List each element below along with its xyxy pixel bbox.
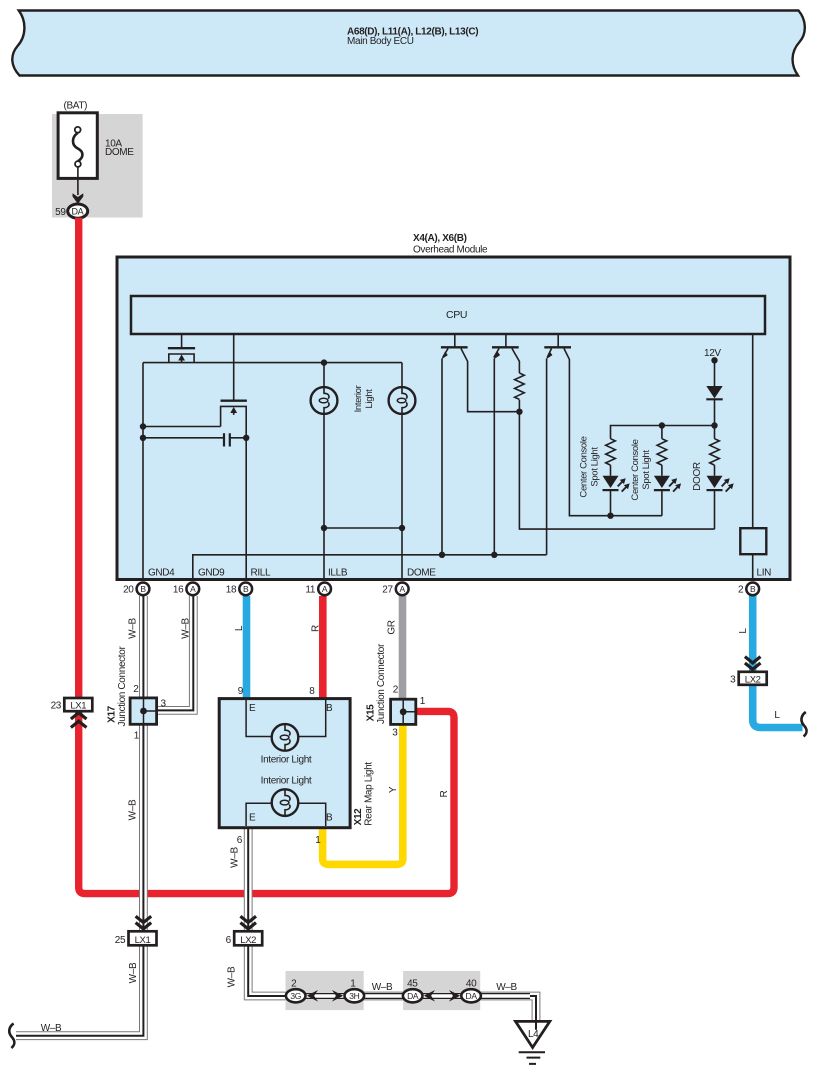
wire lamps bottom rail [324, 527, 402, 529]
node 12V dot [711, 357, 717, 363]
LED1 [603, 476, 630, 492]
node X12 Rear Map Light [219, 686, 374, 846]
svg-text:25: 25 [115, 935, 126, 946]
M2 substrate arrow [233, 412, 235, 415]
wire capacitor right [230, 437, 246, 439]
transistor M1 gate bar [168, 347, 195, 349]
lamp interior light 2 [389, 387, 416, 414]
wire R main feed [79, 218, 454, 894]
pin 20 B GND4 [123, 583, 149, 596]
svg-text:1: 1 [134, 731, 140, 742]
resistor R2 (LED1) [606, 439, 616, 465]
svg-text:2: 2 [133, 684, 139, 695]
wire LED bottom rail [611, 515, 662, 517]
wire LIN column [752, 335, 754, 578]
svg-text:Y: Y [388, 786, 399, 793]
svg-text:A: A [190, 584, 196, 594]
svg-text:L: L [738, 628, 749, 634]
connector 23 LX1 (on red wire) [51, 698, 93, 728]
svg-text:59: 59 [55, 207, 66, 218]
svg-text:1: 1 [315, 835, 321, 846]
svg-text:6: 6 [226, 935, 232, 946]
svg-text:LX2: LX2 [745, 674, 761, 685]
wire W-B (3G to ground L4) [300, 996, 536, 1021]
wire Y (X15 pin3 to X12 pin1) [323, 723, 403, 864]
transistor Q2 [505, 335, 507, 347]
junction connector X15 [366, 643, 426, 738]
wire W-B GND4 (through X17, LX1, to left break) [16, 596, 143, 1036]
pin 27 A DOME [382, 583, 408, 596]
svg-text:Center Console: Center Console [630, 439, 641, 500]
shading DA/DA [403, 971, 480, 1010]
svg-text:Light: Light [364, 389, 375, 409]
resistor R1 (Q2 collector) [515, 373, 525, 399]
svg-text:LIN: LIN [757, 568, 772, 579]
ground L4 [516, 1021, 550, 1064]
svg-text:ILLB: ILLB [328, 568, 348, 579]
svg-text:LX1: LX1 [135, 935, 151, 946]
break left (W-B wire) [9, 1024, 14, 1049]
wire LED columns [610, 465, 612, 516]
svg-text:R: R [439, 790, 450, 797]
wire LED top rail [611, 426, 715, 439]
pin 11 A ILLB [305, 583, 331, 596]
wire capacitor left [143, 437, 224, 439]
transistor M2 gate bar [221, 400, 247, 402]
svg-text:GR: GR [387, 620, 398, 634]
break right (L wire) [801, 712, 806, 737]
svg-text:40: 40 [466, 979, 477, 990]
resistor R4 (LED3) [710, 439, 720, 465]
svg-text:E: E [249, 813, 256, 824]
svg-text:W–B: W–B [41, 1023, 62, 1034]
svg-text:DOME: DOME [407, 568, 436, 579]
svg-text:23: 23 [51, 701, 62, 712]
svg-text:Spot Light: Spot Light [641, 450, 652, 490]
transistor M2 gate [233, 335, 235, 400]
svg-text:2: 2 [393, 685, 399, 696]
svg-text:Interior Light: Interior Light [261, 755, 312, 766]
shading 3G/3H [286, 971, 364, 1010]
LED3 [707, 476, 734, 492]
arrows 3G-3H [307, 990, 318, 1002]
svg-text:A: A [400, 584, 406, 594]
svg-text:L4: L4 [528, 1029, 539, 1040]
lamp rear map 2 [272, 789, 299, 816]
transistor Q1 [454, 335, 456, 347]
svg-text:DA: DA [407, 991, 419, 1001]
arrows DA-DA [424, 990, 435, 1002]
svg-text:W–B: W–B [496, 982, 517, 993]
svg-text:B: B [326, 703, 333, 714]
transistor M2 body [221, 406, 247, 437]
svg-text:W–B: W–B [128, 962, 139, 983]
wire RILL internal column [245, 438, 247, 578]
wire W-B (X12 pin6 to LX2 to 3G) [248, 826, 290, 996]
connector 6 LX2 [226, 916, 263, 946]
svg-text:RILL: RILL [251, 568, 272, 579]
pin 2 B LIN [738, 583, 759, 596]
svg-text:8: 8 [309, 686, 315, 697]
svg-text:Overhead Module: Overhead Module [413, 245, 488, 256]
svg-text:W–B: W–B [227, 966, 238, 987]
transistor Q3 [557, 335, 559, 347]
svg-text:(BAT): (BAT) [64, 100, 88, 111]
svg-text:3H: 3H [349, 991, 359, 1001]
svg-text:12V: 12V [704, 348, 721, 359]
pin 18 B RILL [226, 583, 252, 596]
svg-text:Junction Connector: Junction Connector [376, 643, 387, 724]
svg-text:B: B [750, 584, 756, 594]
resistor R1 wire bottom [518, 400, 520, 412]
svg-text:3: 3 [730, 674, 736, 685]
svg-text:GND4: GND4 [148, 568, 175, 579]
svg-text:DOME: DOME [105, 147, 134, 158]
svg-text:E: E [249, 703, 256, 714]
junction connector X17 [107, 646, 167, 742]
connector 3 LX2 (on blue wire) [730, 657, 767, 686]
svg-text:27: 27 [382, 584, 393, 595]
svg-text:L: L [774, 710, 780, 721]
transistor M1 gate [181, 335, 183, 347]
svg-text:2: 2 [738, 584, 744, 595]
wire fuse to connector [77, 167, 79, 195]
svg-text:1: 1 [420, 696, 426, 707]
fuse 10A DOME [58, 113, 97, 179]
transistor base bars [441, 346, 571, 348]
pin 16 A GND9 [173, 583, 199, 596]
M1 substrate arrow [181, 359, 183, 363]
svg-text:W–B: W–B [181, 618, 192, 639]
CPU [131, 296, 765, 334]
connector 59 DA [68, 204, 88, 218]
wire lamp2 column [401, 363, 403, 528]
svg-text:B: B [243, 584, 249, 594]
wire source/drain rail [143, 362, 402, 364]
svg-text:W–B: W–B [128, 618, 139, 639]
wire Q1/Q2 junction down [519, 412, 714, 529]
svg-text:LX2: LX2 [240, 935, 256, 946]
resistor R3 (LED2) [657, 439, 667, 465]
redraw wire over shading [290, 993, 530, 999]
svg-text:GND9: GND9 [198, 568, 225, 579]
svg-text:X17: X17 [107, 705, 118, 723]
svg-text:A: A [322, 584, 328, 594]
svg-text:Main Body ECU: Main Body ECU [347, 36, 414, 47]
lamp rear map 1 [272, 724, 299, 751]
svg-text:DOOR: DOOR [692, 462, 703, 491]
svg-text:R: R [311, 625, 322, 632]
wire emitter rail to GND9 [193, 555, 547, 578]
svg-text:11: 11 [305, 584, 315, 595]
svg-text:W–B: W–B [128, 799, 139, 820]
transistor emitter arrows [441, 351, 447, 359]
connector 40 DA [461, 989, 481, 1002]
svg-text:LX1: LX1 [70, 701, 86, 712]
fuse panel shading [52, 114, 143, 218]
svg-text:X12: X12 [353, 808, 364, 826]
connector 25 LX1 [115, 916, 157, 946]
svg-text:2: 2 [291, 979, 297, 990]
svg-text:B: B [326, 813, 333, 824]
svg-text:B: B [140, 584, 146, 594]
svg-text:9: 9 [238, 686, 244, 697]
svg-text:Interior Light: Interior Light [261, 776, 312, 787]
svg-text:1: 1 [350, 979, 356, 990]
svg-text:Center Console: Center Console [579, 436, 590, 497]
wire 12V column [714, 360, 716, 425]
svg-text:W–B: W–B [230, 847, 241, 868]
svg-text:18: 18 [226, 584, 237, 595]
wire lamp1 column [323, 363, 325, 578]
svg-text:3G: 3G [290, 991, 301, 1001]
lamp interior light 1 [311, 387, 338, 414]
LIN interface box U2 [740, 528, 766, 554]
wire GR (DOME to X15 pin2) [399, 596, 407, 701]
svg-text:6: 6 [237, 835, 243, 846]
svg-text:CPU: CPU [446, 309, 467, 321]
diode D1 [706, 386, 722, 398]
LED2 [654, 476, 681, 492]
svg-text:45: 45 [407, 979, 418, 990]
svg-text:Interior: Interior [353, 385, 364, 412]
svg-text:3: 3 [392, 728, 398, 739]
svg-text:X4(A), X6(B): X4(A), X6(B) [413, 233, 467, 244]
connector 2 3G [286, 989, 306, 1002]
svg-text:Rear Map Light: Rear Map Light [364, 762, 375, 826]
junction dots (module) [140, 359, 718, 558]
svg-text:16: 16 [173, 584, 184, 595]
connector 45 DA [403, 989, 423, 1002]
svg-text:W–B: W–B [372, 982, 393, 993]
capacitor C plates [224, 433, 230, 446]
svg-text:20: 20 [123, 584, 134, 595]
svg-text:3: 3 [161, 699, 167, 710]
transistor M1 body [169, 354, 194, 363]
svg-text:L: L [234, 625, 245, 631]
wire L (LIN to LX2) [753, 594, 803, 728]
svg-text:Junction Connector: Junction Connector [117, 646, 128, 727]
svg-text:Spot Light: Spot Light [590, 447, 601, 487]
wire R (ILLB to X12 pin8) [319, 596, 327, 701]
wire M2 source to GND4 [143, 426, 221, 428]
connector 1 3H [345, 989, 365, 1002]
wire L (RILL to X12 pin9) [243, 596, 251, 701]
node banner: Main Body ECU ribbon [12, 11, 805, 76]
svg-text:DA: DA [466, 991, 478, 1001]
wire W-B GND9 (to X17 pin3) [158, 596, 193, 710]
wire GND4 internal column [142, 363, 144, 578]
svg-text:DA: DA [71, 206, 83, 216]
wire DOME internal column [401, 528, 403, 578]
svg-text:X15: X15 [366, 704, 377, 722]
